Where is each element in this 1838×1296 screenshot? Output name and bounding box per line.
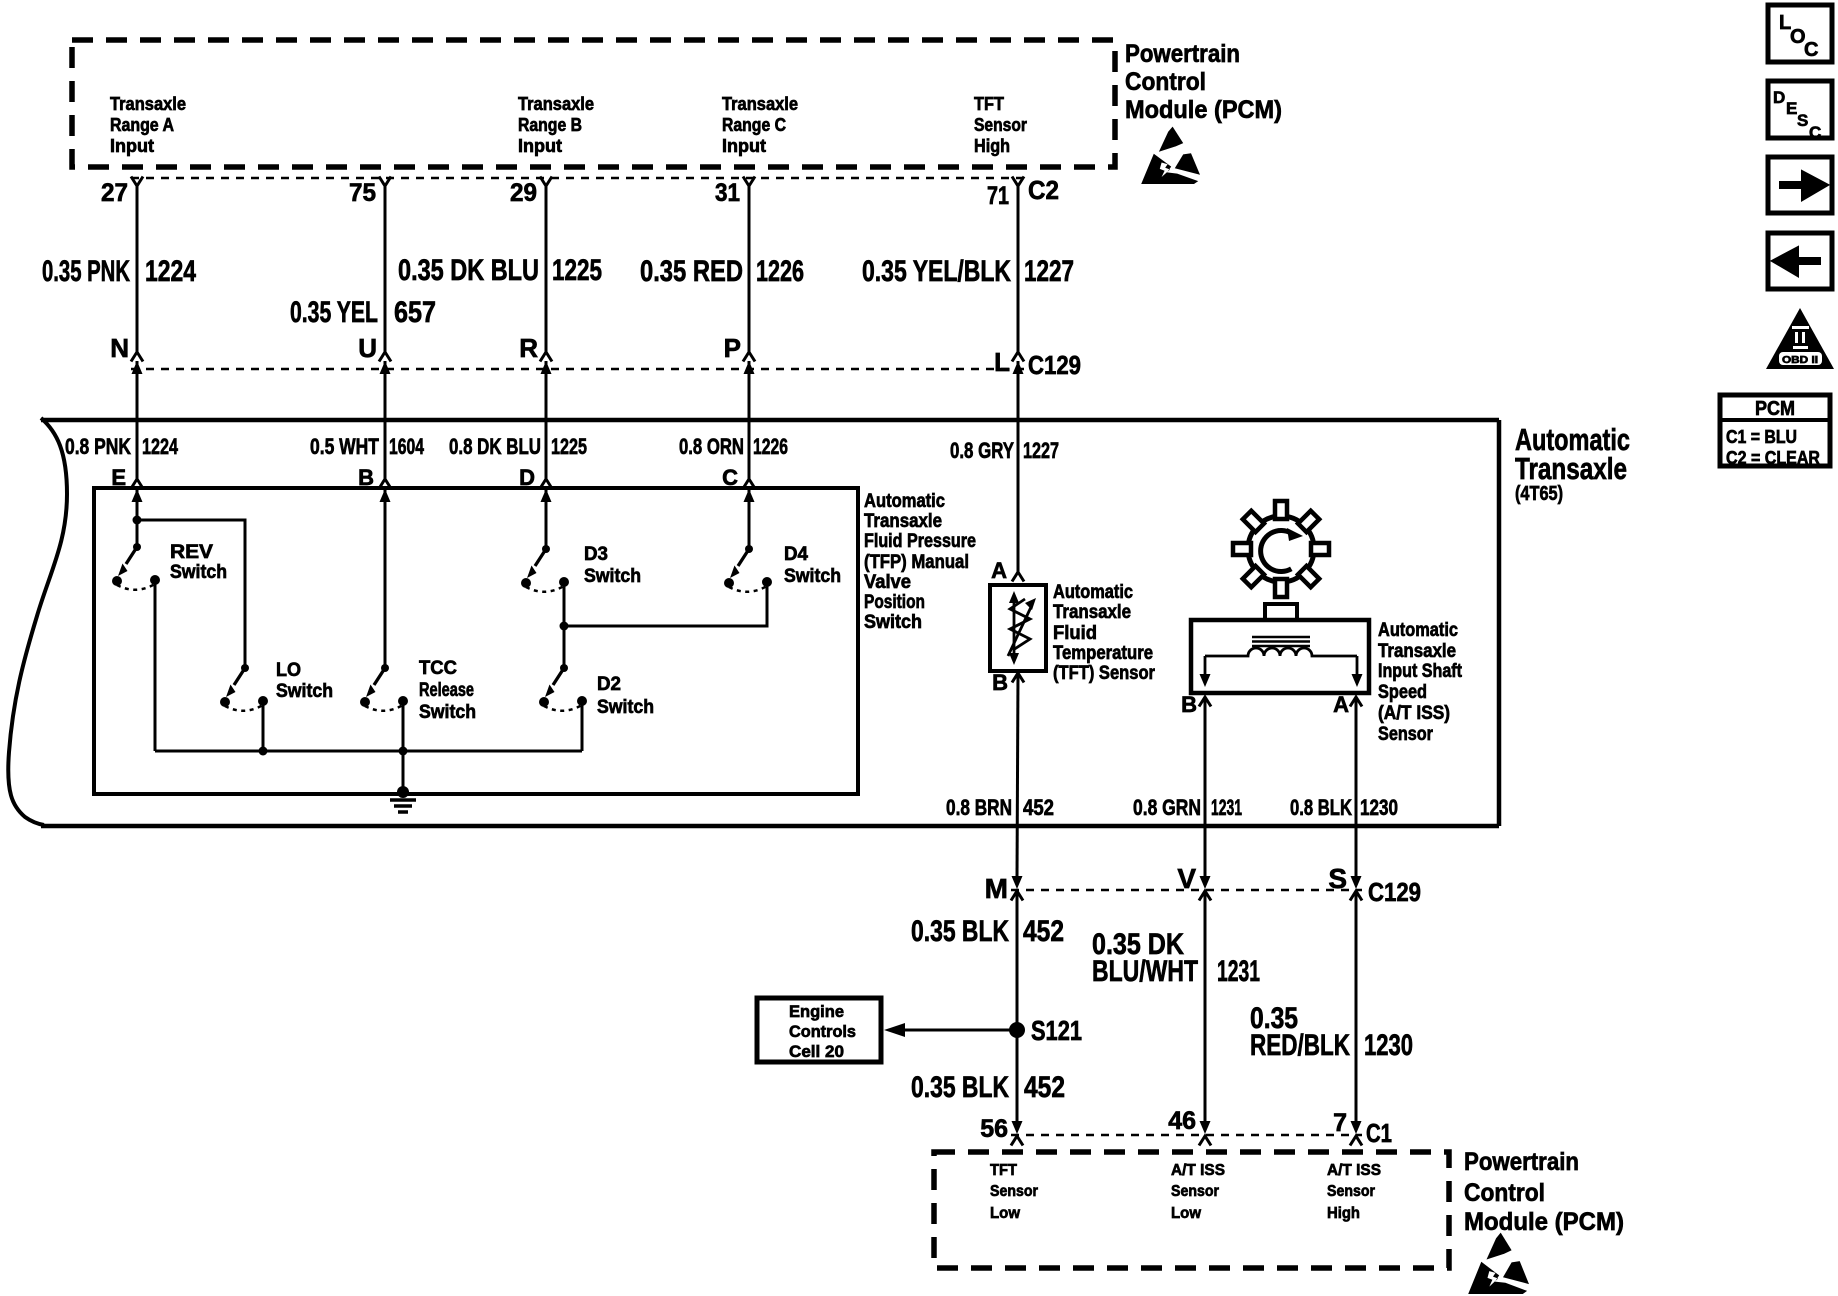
pin V (C129 bottom) terminal arrow and fork	[1199, 876, 1211, 901]
svg-text:Automatic: Automatic	[1053, 582, 1133, 603]
pin P (C129) terminal fork and arrow	[743, 352, 755, 374]
svg-text:TCC: TCC	[419, 658, 457, 679]
value label 0.8 GRY 1227	[950, 438, 1059, 463]
wire 0.35 RED/BLK 1230 (S to 7)	[1355, 891, 1358, 1122]
svg-text:PCM: PCM	[1755, 398, 1795, 420]
wire 0.8 PNK 1224 (N-E)	[136, 361, 139, 479]
splice node S121	[1009, 1022, 1025, 1038]
wire 0.8 ORN 1226 (C-D)	[748, 361, 751, 479]
ground symbol	[390, 786, 416, 812]
pin C (TFP switch) terminal fork and arrow	[743, 479, 755, 502]
label D2 Switch	[597, 674, 654, 718]
junction node LO/ground bus	[259, 747, 268, 756]
svg-text:(TFT) Sensor: (TFT) Sensor	[1053, 663, 1156, 684]
svg-text:TFT: TFT	[990, 1162, 1017, 1179]
svg-text:C2: C2	[1028, 175, 1059, 205]
pin 46 (PCM C1) terminal arrow and fork	[1199, 1121, 1211, 1146]
svg-text:Position: Position	[864, 592, 925, 613]
svg-text:A: A	[991, 558, 1007, 583]
svg-text:C129: C129	[1368, 877, 1421, 907]
svg-text:1225: 1225	[552, 254, 602, 287]
wire 0.35 YEL/BLK 1227 (pin71-L)	[1017, 186, 1020, 352]
svg-text:Powertrain: Powertrain	[1125, 40, 1240, 68]
junction node TCC/ground bus	[399, 747, 408, 756]
svg-text:1224: 1224	[142, 434, 179, 459]
A/T ISS sensor (inductive pickup) body	[1191, 604, 1369, 693]
wire junction to LO switch branch	[137, 520, 245, 668]
D3 Switch contacts	[521, 545, 569, 592]
pin B (ISS sensor) terminal fork	[1199, 697, 1211, 707]
value label 0.8 PNK 1224	[65, 434, 179, 459]
svg-text:Module (PCM): Module (PCM)	[1125, 96, 1282, 124]
svg-text:C: C	[722, 465, 738, 490]
wire D2 switch to ground bus end	[581, 705, 584, 751]
wire D lead into D3 switch	[545, 489, 548, 549]
title Powertrain Control Module (PCM) bottom	[1464, 1148, 1624, 1236]
svg-text:S121: S121	[1031, 1015, 1082, 1046]
LO Switch contacts	[220, 664, 268, 711]
svg-text:Switch: Switch	[584, 566, 641, 587]
svg-text:Control: Control	[1125, 68, 1206, 96]
svg-text:Module (PCM): Module (PCM)	[1464, 1208, 1624, 1236]
DESC legend icon	[1768, 81, 1832, 142]
pin 56 (PCM C1) terminal arrow and fork	[1011, 1121, 1023, 1146]
value label 0.35 DK BLU 1225	[398, 254, 602, 287]
label Automatic Transaxle Input Shaft Speed (A/T ISS) Sensor	[1378, 620, 1463, 745]
wire to Engine Controls (arrow)	[884, 1023, 1017, 1037]
svg-text:D4: D4	[784, 544, 808, 565]
svg-text:1225: 1225	[551, 434, 587, 459]
wire REV junction to pivot	[136, 520, 139, 547]
PCM module box (bottom, dashed)	[934, 1152, 1449, 1268]
svg-text:Controls: Controls	[789, 1022, 856, 1041]
svg-text:452: 452	[1023, 915, 1064, 948]
svg-text:29: 29	[510, 179, 537, 207]
label A/T ISS Sensor High (pin 7)	[1327, 1162, 1381, 1222]
svg-text:REV: REV	[170, 542, 213, 563]
label Automatic Transaxle Fluid Temperature (TFT) Sensor	[1053, 582, 1156, 684]
svg-text:R: R	[519, 333, 538, 363]
svg-text:Powertrain: Powertrain	[1464, 1148, 1579, 1176]
TCC Release Switch contacts	[360, 664, 408, 711]
svg-text:TFT: TFT	[974, 94, 1004, 114]
svg-text:V: V	[1177, 863, 1196, 894]
svg-text:D: D	[1773, 88, 1785, 107]
wire 0.35 BLK 452 (M to S121)	[1016, 891, 1019, 1030]
wire TCC switch to ground	[402, 705, 405, 792]
wire E lead into REV switch	[136, 489, 139, 520]
pin 27 (PCM C2) terminal fork	[131, 177, 143, 187]
svg-text:27: 27	[101, 179, 128, 207]
pin 29 (PCM C2) terminal fork	[540, 177, 552, 187]
D2 Switch contacts	[539, 664, 587, 711]
pin B (TFP switch) terminal fork and arrow	[379, 479, 391, 502]
svg-text:Range B: Range B	[518, 115, 582, 135]
svg-text:C129: C129	[1028, 350, 1081, 380]
svg-text:31: 31	[715, 179, 740, 207]
svg-text:E: E	[1786, 99, 1797, 118]
svg-text:Input: Input	[518, 136, 562, 156]
pin 75 (PCM C2) terminal fork	[379, 177, 391, 187]
pin R (C129) terminal fork and arrow	[540, 352, 552, 374]
svg-text:0.35 BLK: 0.35 BLK	[911, 915, 1009, 948]
svg-text:Input Shaft: Input Shaft	[1378, 661, 1463, 682]
svg-text:Switch: Switch	[597, 697, 654, 718]
svg-text:U: U	[358, 333, 377, 363]
connector C129 line top (dashed)	[131, 368, 1024, 370]
svg-text:0.8 GRY: 0.8 GRY	[950, 438, 1014, 463]
label LO Switch	[276, 660, 333, 702]
svg-text:Transaxle: Transaxle	[518, 94, 594, 114]
svg-text:1227: 1227	[1023, 438, 1059, 463]
svg-text:0.8 BRN: 0.8 BRN	[946, 795, 1012, 820]
label D4 Switch	[784, 544, 841, 587]
wire 0.5 WHT 1604 (U-B)	[384, 361, 387, 479]
svg-text:75: 75	[349, 179, 376, 207]
junction node D3/D4 tie	[560, 622, 569, 631]
svg-text:M: M	[985, 873, 1008, 904]
svg-text:High: High	[1327, 1205, 1360, 1222]
svg-text:C1: C1	[1366, 1118, 1392, 1148]
wire 0.35 DK BLU/WHT 1231 (V to 46)	[1204, 891, 1207, 1122]
svg-text:(A/T ISS): (A/T ISS)	[1378, 703, 1450, 724]
back arrow icon	[1768, 233, 1832, 289]
svg-text:Transaxle: Transaxle	[110, 94, 186, 114]
pin D (TFP switch) terminal fork and arrow	[540, 479, 552, 502]
svg-text:0.35 DK BLU: 0.35 DK BLU	[398, 254, 539, 287]
svg-text:0.35 YEL: 0.35 YEL	[290, 296, 378, 329]
value label 0.8 GRN 1231	[1133, 795, 1242, 820]
svg-text:Switch: Switch	[419, 702, 476, 723]
junction node at REV switch feed	[133, 516, 142, 525]
connector C1 line (dashed)	[1011, 1134, 1362, 1136]
pin L (C129) terminal fork and arrow	[1012, 352, 1024, 374]
pin E (TFP switch) terminal fork and arrow	[131, 479, 143, 502]
svg-text:0.8 BLK: 0.8 BLK	[1290, 795, 1352, 820]
svg-text:0.35 BLK: 0.35 BLK	[911, 1071, 1009, 1104]
ground bus wire	[155, 750, 582, 753]
value label 0.35 YEL/BLK 1227	[862, 255, 1074, 288]
TFT sensor (thermistor) body	[990, 585, 1046, 671]
svg-text:P: P	[724, 333, 741, 363]
value label 0.35 BLK 452 (upper)	[911, 915, 1064, 948]
svg-text:657: 657	[394, 296, 436, 329]
svg-text:Valve: Valve	[864, 572, 911, 593]
pin N (C129) terminal fork and arrow	[131, 352, 143, 374]
connector C2 line (dashed)	[131, 177, 1024, 179]
pin 7 (PCM C1) terminal arrow and fork	[1350, 1121, 1362, 1146]
svg-text:452: 452	[1023, 795, 1054, 820]
value label 0.8 DK BLU 1225	[449, 434, 587, 459]
svg-text:C2 = CLEAR: C2 = CLEAR	[1726, 448, 1820, 468]
pin B (TFT sensor) terminal fork	[1012, 673, 1024, 683]
label TCC Release Switch	[419, 658, 476, 723]
wire 0.35 BLK 452 (S121 to 56)	[1016, 1030, 1019, 1122]
label Automatic Transaxle Fluid Pressure (TFP) Manual Valve Position Switch	[864, 491, 976, 633]
svg-text:C: C	[1809, 123, 1821, 142]
svg-text:1231: 1231	[1217, 955, 1260, 988]
pin A (TFT sensor) terminal fork	[1012, 572, 1024, 582]
svg-text:Release: Release	[419, 680, 474, 701]
pin M (C129 bottom) terminal arrow and fork	[1011, 876, 1023, 901]
svg-text:0.8 DK BLU: 0.8 DK BLU	[449, 434, 541, 459]
svg-text:(4T65): (4T65)	[1515, 483, 1563, 505]
svg-text:B: B	[1181, 692, 1197, 717]
label Transaxle Range C Input (pin 31)	[722, 94, 798, 156]
wire 0.35 RED 1226 (pin31-P)	[748, 186, 751, 352]
svg-text:Transaxle: Transaxle	[1378, 641, 1456, 662]
svg-text:Low: Low	[1171, 1205, 1202, 1222]
svg-text:Sensor: Sensor	[990, 1183, 1038, 1200]
svg-text:Sensor: Sensor	[1378, 724, 1434, 745]
svg-text:D: D	[519, 465, 535, 490]
Engine Controls Cell 20 reference box	[757, 998, 881, 1062]
wire REV switch to ground bus	[154, 584, 157, 751]
value label 0.35 BLK 452 (lower)	[911, 1071, 1065, 1104]
pin 71 (PCM C2) terminal fork	[1012, 177, 1024, 187]
svg-text:1231: 1231	[1211, 795, 1242, 820]
svg-text:S: S	[1328, 863, 1347, 894]
wire LO switch to ground bus	[262, 705, 265, 751]
svg-text:Cell 20: Cell 20	[789, 1042, 844, 1061]
svg-text:B: B	[992, 670, 1008, 695]
svg-text:0.35 PNK: 0.35 PNK	[42, 255, 130, 288]
svg-text:A/T ISS: A/T ISS	[1327, 1162, 1381, 1179]
label Transaxle Range A Input (pin 27)	[110, 94, 186, 156]
wire 0.35 YEL 657 (pin75-U)	[384, 186, 387, 352]
svg-text:A: A	[1333, 692, 1349, 717]
label D3 Switch	[584, 544, 641, 587]
svg-text:A/T ISS: A/T ISS	[1171, 1162, 1225, 1179]
connector C129 line bottom (dashed)	[1011, 889, 1362, 891]
wire 0.8 GRY 1227 (L-TFT A)	[1017, 361, 1020, 572]
svg-text:46: 46	[1168, 1107, 1196, 1135]
svg-text:Transaxle: Transaxle	[864, 511, 942, 532]
wire B lead into TCC release switch	[384, 489, 387, 668]
pin S (C129 bottom) terminal arrow and fork	[1350, 876, 1362, 901]
svg-text:Temperature: Temperature	[1053, 643, 1153, 664]
svg-text:Switch: Switch	[784, 566, 841, 587]
OBD II triangle icon	[1766, 308, 1834, 369]
svg-text:Automatic: Automatic	[1378, 620, 1458, 641]
svg-text:Input: Input	[722, 136, 766, 156]
svg-text:Sensor: Sensor	[1171, 1183, 1219, 1200]
label TFT Sensor High (pin 71)	[974, 94, 1027, 156]
svg-text:1227: 1227	[1024, 255, 1074, 288]
wire 0.8 DK BLU 1225 (R-D)	[545, 361, 548, 479]
value label 0.35 DK BLU/WHT 1231	[1092, 928, 1260, 988]
label A/T ISS Sensor Low (pin 46)	[1171, 1162, 1225, 1222]
wire 0.35 PNK 1224 (pin27-N)	[136, 186, 139, 352]
wire 0.35 DK BLU 1225 (pin29-R)	[545, 186, 548, 352]
svg-text:(TFP) Manual: (TFP) Manual	[864, 552, 969, 573]
label Transaxle Range B Input (pin 29)	[518, 94, 594, 156]
svg-text:1224: 1224	[145, 255, 196, 288]
svg-text:0.35 RED: 0.35 RED	[640, 255, 743, 288]
svg-text:0.35 YEL/BLK: 0.35 YEL/BLK	[862, 255, 1011, 288]
svg-text:OBD II: OBD II	[1782, 355, 1818, 366]
svg-text:Low: Low	[990, 1205, 1021, 1222]
svg-text:LO: LO	[276, 660, 301, 681]
wire 0.8 GRN 1231 (ISS B to V)	[1204, 697, 1207, 877]
PCM connector color legend box	[1720, 395, 1830, 468]
svg-text:Speed: Speed	[1378, 682, 1427, 703]
svg-text:0.8 PNK: 0.8 PNK	[65, 434, 131, 459]
pin A (ISS sensor) terminal fork	[1350, 697, 1362, 707]
title Automatic Transaxle (4T65)	[1515, 422, 1630, 505]
svg-text:C1 = BLU: C1 = BLU	[1726, 427, 1797, 447]
svg-text:RED/BLK: RED/BLK	[1250, 1029, 1350, 1062]
title Powertrain Control Module (PCM) top	[1125, 40, 1282, 124]
REV Switch contacts	[112, 543, 160, 590]
svg-text:Switch: Switch	[170, 562, 227, 583]
pin U (C129) terminal fork and arrow	[379, 352, 391, 374]
svg-text:Automatic: Automatic	[864, 491, 945, 512]
value label 0.8 BRN 452	[946, 795, 1054, 820]
svg-text:Transaxle: Transaxle	[1053, 602, 1131, 623]
pin 31 (PCM C2) terminal fork	[743, 177, 755, 187]
svg-text:1230: 1230	[1360, 795, 1398, 820]
svg-text:Range C: Range C	[722, 115, 786, 135]
TFP manual valve position switch box	[94, 488, 858, 794]
svg-text:71: 71	[987, 182, 1009, 210]
svg-text:1226: 1226	[756, 255, 804, 288]
ESD warning symbol (top PCM)	[1141, 127, 1200, 184]
svg-text:0.8 ORN: 0.8 ORN	[679, 434, 744, 459]
value label 0.35 RED 1226	[640, 255, 804, 288]
value label 0.35 YEL 657	[290, 296, 436, 329]
label REV Switch	[170, 542, 227, 583]
svg-text:7: 7	[1333, 1109, 1347, 1137]
svg-text:Sensor: Sensor	[974, 115, 1027, 135]
svg-text:1230: 1230	[1364, 1029, 1413, 1062]
svg-text:452: 452	[1024, 1071, 1065, 1104]
svg-text:Fluid: Fluid	[1053, 623, 1097, 644]
svg-text:B: B	[358, 465, 374, 490]
svg-text:High: High	[974, 136, 1010, 156]
svg-text:Range A: Range A	[110, 115, 174, 135]
svg-text:BLU/WHT: BLU/WHT	[1092, 955, 1198, 988]
svg-text:Control: Control	[1464, 1179, 1545, 1207]
svg-text:E: E	[111, 465, 126, 490]
svg-text:Switch: Switch	[864, 612, 922, 633]
svg-text:N: N	[110, 333, 129, 363]
wire 0.8 BRN 452 (TFT B to M)	[1017, 673, 1018, 877]
LOC legend icon	[1768, 5, 1832, 62]
value label 0.8 BLK 1230	[1290, 795, 1398, 820]
svg-text:0.8 GRN: 0.8 GRN	[1133, 795, 1201, 820]
PCM module box (top, dashed)	[72, 40, 1115, 167]
svg-text:Transaxle: Transaxle	[1515, 451, 1627, 486]
wire D3 to D2 switch	[563, 586, 566, 668]
wire 0.8 BLK 1230 (ISS A to S)	[1355, 697, 1358, 877]
svg-text:1226: 1226	[753, 434, 788, 459]
wire C lead into D4 switch	[748, 489, 751, 549]
label TFT Sensor Low (pin 56)	[990, 1162, 1038, 1222]
svg-text:D3: D3	[584, 544, 608, 565]
Automatic Transaxle (4T65) enclosure	[8, 418, 1499, 826]
svg-text:L: L	[994, 347, 1010, 377]
svg-text:Fluid Pressure: Fluid Pressure	[864, 531, 976, 552]
svg-text:Input: Input	[110, 136, 154, 156]
svg-text:1604: 1604	[389, 434, 425, 459]
svg-text:0.5 WHT: 0.5 WHT	[310, 434, 379, 459]
D4 Switch contacts	[724, 545, 772, 592]
wire D4 switch to D3/D2 tie	[564, 586, 767, 626]
svg-text:Sensor: Sensor	[1327, 1183, 1375, 1200]
value label 0.8 ORN 1226	[679, 434, 788, 459]
value label 0.35 PNK 1224	[42, 255, 196, 288]
svg-text:C: C	[1804, 39, 1818, 61]
svg-text:S: S	[1797, 111, 1808, 130]
svg-text:56: 56	[980, 1115, 1008, 1143]
forward arrow icon	[1768, 157, 1832, 213]
value label 0.35 RED/BLK 1230	[1250, 1002, 1413, 1062]
svg-text:Engine: Engine	[789, 1002, 844, 1021]
input shaft gear icon	[1233, 501, 1329, 597]
ESD warning symbol (bottom PCM)	[1468, 1233, 1529, 1294]
value label 0.5 WHT 1604	[310, 434, 425, 459]
svg-text:Switch: Switch	[276, 681, 333, 702]
svg-text:D2: D2	[597, 674, 621, 695]
svg-text:Transaxle: Transaxle	[722, 94, 798, 114]
